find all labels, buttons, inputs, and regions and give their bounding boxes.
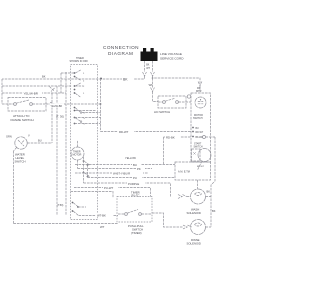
- rinse solenoid right lead: [206, 226, 212, 228]
- wire right vertical x215: [211, 137, 215, 227]
- label WT bottom: [100, 225, 105, 229]
- svg-text:CONNECTION: CONNECTION: [103, 45, 139, 50]
- svg-text:2: 2: [83, 86, 85, 88]
- label BK left: [42, 75, 46, 79]
- label start switch: [194, 143, 203, 149]
- svg-text:BK-RD: BK-RD: [196, 137, 203, 139]
- motor lower box: [175, 162, 211, 180]
- wire into motor box top: [199, 86, 201, 93]
- timer contact row y73: [74, 72, 76, 74]
- svg-text:PK: PK: [137, 167, 141, 171]
- unbalance switch box: [8, 98, 46, 112]
- node on y78 wire: [100, 78, 102, 80]
- timer box dashed: [117, 197, 152, 223]
- power plug P1: [141, 48, 158, 61]
- label WT-BK bottom: [96, 213, 113, 218]
- connector chevron on right lead: [151, 72, 155, 76]
- wire plug left lead: [144, 61, 146, 72]
- connector chevrons rinse: [183, 225, 192, 229]
- svg-text:START: START: [194, 143, 202, 146]
- wash solenoid right lead: [206, 196, 212, 198]
- wire y123 right: [74, 123, 76, 125]
- timer contact row y89: [74, 89, 76, 91]
- svg-text:5: 5: [84, 118, 86, 120]
- terminal circle at motor box corner: [187, 95, 190, 98]
- wire left drop to bottom: [13, 151, 15, 224]
- svg-text:V: V: [28, 134, 30, 138]
- wire y137 from x163: [164, 137, 192, 165]
- label GRN: [6, 134, 42, 143]
- wire y191.5 to timer box left: [71, 192, 114, 198]
- svg-text:SWITCH: SWITCH: [194, 146, 203, 148]
- svg-text:4: 4: [84, 113, 86, 115]
- timer box contacts: [125, 213, 128, 216]
- label T50: [57, 204, 64, 207]
- lead into bottom run: [14, 148, 17, 152]
- wire y110.5 right: [75, 110, 96, 112]
- svg-text:(T.50): (T.50): [57, 204, 64, 207]
- svg-text:SHOWN IN OFF: SHOWN IN OFF: [70, 60, 89, 63]
- bus stub x61: [60, 73, 62, 93]
- connector chevrons wash: [178, 195, 187, 199]
- svg-text:2: 2: [83, 81, 85, 83]
- svg-text:MTR: MTR: [196, 90, 202, 93]
- node junction at plug right: [152, 77, 154, 79]
- wire vertical x52 to water level: [51, 93, 53, 143]
- motor terminals: [192, 127, 194, 129]
- label BK vertical: [212, 209, 216, 213]
- start winding circle: [198, 149, 211, 162]
- node and wire to right edge: [203, 136, 206, 139]
- bus wire x66: [65, 72, 67, 216]
- label YEL/W-BR: [23, 91, 42, 96]
- svg-text:LINE VOLTAGE: LINE VOLTAGE: [160, 52, 182, 56]
- label RD: [136, 166, 145, 171]
- wire drop x100.5: [100, 79, 102, 132]
- wire y117 right: [74, 117, 76, 119]
- label WT-BK: [112, 171, 143, 176]
- svg-text:WT-BK: WT-BK: [97, 214, 106, 218]
- label YELLOW: [125, 156, 136, 160]
- svg-text:W-BT-Y-BU/R: W-BT-Y-BU/R: [113, 172, 130, 176]
- timer contact row y107: [74, 107, 76, 109]
- wire y164.5 long BU: [75, 164, 175, 166]
- wire top right run to motor: [153, 76, 201, 84]
- label T30: [56, 115, 64, 119]
- label WT: [149, 83, 153, 87]
- label protector: [193, 114, 203, 120]
- svg-text:1: 1: [83, 93, 85, 95]
- label BK WT under plug: [146, 64, 150, 71]
- timer motor leads: [77, 140, 79, 169]
- label under timer box: [128, 224, 144, 235]
- wire y177.5 long: [88, 177, 176, 179]
- svg-text:BK-WT: BK-WT: [197, 166, 205, 168]
- svg-text:(TIMER): (TIMER): [131, 231, 142, 235]
- wire BK top run to left side: [2, 76, 145, 79]
- label RD-WT on y131: [118, 129, 134, 134]
- label RD MTR: [196, 87, 202, 93]
- wire y184 to wash solenoid: [84, 183, 171, 197]
- svg-text:SERVICE CORD: SERVICE CORD: [160, 57, 184, 61]
- timer contact row y93: [74, 92, 76, 94]
- rinse solenoid: [191, 220, 206, 235]
- label line voltage: [160, 52, 184, 61]
- lower contact cluster: [72, 202, 74, 204]
- switch contacts inside: [14, 103, 17, 106]
- label BK: [122, 76, 134, 81]
- title CONNECTION DIAGRAM: [103, 45, 139, 56]
- wire bottom run: [14, 223, 119, 225]
- svg-text:SOLENOID: SOLENOID: [187, 211, 201, 215]
- svg-text:YEL/W-BR: YEL/W-BR: [24, 92, 39, 96]
- svg-text:RD-WT: RD-WT: [196, 132, 204, 134]
- svg-text:BK: BK: [207, 190, 211, 194]
- label W-BT-Y-BU: [132, 175, 142, 180]
- connector arrow on lead: [50, 102, 54, 106]
- svg-text:LID SWITCH: LID SWITCH: [154, 110, 170, 114]
- svg-text:WT: WT: [149, 83, 153, 87]
- svg-text:SWITCH: SWITCH: [193, 117, 203, 120]
- bus wire x57: [56, 86, 58, 216]
- label attach to base: [11, 114, 34, 122]
- timer label above box: [70, 57, 89, 63]
- wire timer box to rinse solenoid: [152, 213, 183, 227]
- label PU-WT: [103, 185, 118, 190]
- wire y215 into timer box: [79, 215, 119, 217]
- svg-text:BK: BK: [42, 75, 46, 79]
- motor protector circle: [195, 97, 206, 108]
- svg-text:BU: BU: [196, 128, 200, 130]
- svg-text:PURPLE: PURPLE: [128, 182, 139, 186]
- svg-text:(T. 30): (T. 30): [56, 115, 64, 119]
- wire branch y86: [2, 85, 72, 87]
- label Y-W: [127, 181, 145, 186]
- junction cross at x52: [50, 87, 55, 92]
- svg-text:RD-WT: RD-WT: [119, 130, 129, 134]
- svg-text:MOTOR: MOTOR: [73, 154, 82, 157]
- wire branch y93: [2, 92, 66, 94]
- svg-text:PU-WT: PU-WT: [104, 186, 113, 190]
- contact column 2: [83, 160, 85, 162]
- wire WT down to lid switch: [152, 78, 154, 88]
- svg-text:WT: WT: [146, 67, 150, 70]
- svg-text:SWITCH: SWITCH: [15, 160, 26, 164]
- label wash solenoid: [187, 208, 201, 216]
- svg-text:YEL/W-BR: YEL/W-BR: [51, 105, 63, 108]
- lead right of water level: [27, 142, 52, 144]
- svg-text:BK: BK: [123, 77, 128, 81]
- start winding lead: [198, 161, 203, 170]
- svg-text:BU: BU: [38, 139, 42, 143]
- label BK wash: [207, 190, 211, 194]
- wire y131 long to motor box: [101, 131, 192, 133]
- timer motor circle: [71, 147, 84, 160]
- wire plug right lead: [152, 61, 154, 72]
- wire to bus from switch: [46, 103, 101, 105]
- timer dashed box: [71, 65, 98, 220]
- connector chevron on left lead: [143, 72, 147, 76]
- wire y168.5 long: [78, 168, 153, 170]
- lid switch box: [158, 96, 186, 108]
- svg-text:YELLOW: YELLOW: [125, 156, 136, 160]
- wire y112 right: [82, 112, 101, 114]
- svg-text:PU-TC: PU-TC: [132, 194, 140, 198]
- timer contact row y86: [74, 85, 76, 87]
- wire left border drop: [1, 79, 3, 104]
- connector chevron motor feed: [198, 82, 202, 86]
- label water level: [15, 153, 26, 164]
- svg-text:GRN: GRN: [6, 135, 12, 139]
- svg-text:PU: PU: [133, 176, 137, 180]
- svg-text:WT: WT: [100, 225, 105, 229]
- svg-text:A.M. E.TM: A.M. E.TM: [178, 171, 190, 174]
- label lid switch: [154, 110, 170, 114]
- wash solenoid: [191, 189, 206, 204]
- svg-text:1: 1: [83, 73, 85, 75]
- svg-text:DIAGRAM: DIAGRAM: [108, 51, 133, 56]
- svg-text:FRAME SWITCH: FRAME SWITCH: [11, 118, 34, 122]
- wire box bottom to wash solenoid: [197, 180, 199, 189]
- label TIMER above box: [131, 190, 140, 197]
- connector chevron WT: [151, 88, 155, 92]
- label BU: [132, 162, 141, 167]
- water level switch circle: [15, 137, 27, 149]
- svg-text:3: 3: [84, 124, 86, 126]
- svg-text:RD-BK: RD-BK: [166, 136, 175, 140]
- wire y73 stub: [61, 72, 75, 74]
- label rinse solenoid: [187, 238, 201, 246]
- label RD-BK: [165, 135, 180, 140]
- motor box: [191, 93, 211, 162]
- wire y187.5 to timer box right: [74, 188, 151, 197]
- start switch small box: [192, 149, 201, 161]
- label YEL/W-BR 2: [50, 104, 64, 108]
- svg-text:BK: BK: [212, 209, 216, 213]
- wire y173: [75, 172, 148, 174]
- svg-text:SOLENOID: SOLENOID: [187, 242, 201, 246]
